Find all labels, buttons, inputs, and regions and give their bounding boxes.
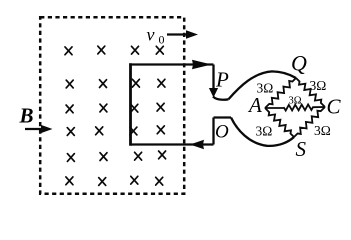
svg-text:A: A bbox=[247, 93, 262, 117]
svg-text:3Ω: 3Ω bbox=[257, 81, 274, 96]
wire: top arc P to Q bbox=[229, 71, 297, 99]
svg-text:B: B bbox=[19, 104, 34, 128]
resistor Q-C 3ohm bbox=[296, 78, 325, 107]
arrow current top rail right bbox=[192, 60, 212, 70]
field B crosses bbox=[65, 46, 166, 185]
wire: bottom rail of loop to corner bbox=[131, 143, 214, 145]
svg-text:3Ω: 3Ω bbox=[310, 78, 327, 93]
svg-text:3Ω: 3Ω bbox=[314, 123, 331, 138]
resistor A-S 3ohm bbox=[265, 108, 294, 137]
svg-text:0: 0 bbox=[159, 33, 165, 47]
svg-text:3Ω: 3Ω bbox=[256, 124, 273, 139]
svg-text:C: C bbox=[327, 95, 342, 119]
arrowheads bbox=[25, 30, 218, 149]
svg-text:O: O bbox=[215, 122, 229, 143]
svg-text:Q: Q bbox=[291, 51, 307, 76]
resistor S-C 3ohm bbox=[294, 107, 325, 137]
conducting rod (left bar of loop) bbox=[129, 63, 132, 145]
field boundary dotted box bbox=[40, 17, 184, 194]
svg-text:P: P bbox=[215, 68, 229, 92]
arrow current bottom rail left bbox=[190, 140, 204, 150]
resistor A-C middle 3ohm bbox=[265, 105, 325, 111]
wire: vertical down to P bbox=[212, 65, 214, 91]
wire: horizontal to bottom arc start bbox=[214, 116, 232, 118]
wire: top rail of loop to corner bbox=[129, 63, 213, 65]
arrow v0 bbox=[167, 30, 198, 39]
arrow current down to P bbox=[209, 88, 218, 98]
wire: vertical up from O corner bbox=[212, 118, 214, 145]
svg-text:3Ω: 3Ω bbox=[289, 96, 302, 107]
wire: bottom arc O to S bbox=[231, 118, 294, 146]
svg-text:S: S bbox=[296, 137, 307, 161]
arrow B into region bbox=[25, 125, 53, 133]
wire: from P arrow to top arc start bbox=[213, 97, 229, 100]
svg-text:v: v bbox=[147, 25, 155, 45]
resistor A-Q 3ohm bbox=[265, 78, 296, 108]
